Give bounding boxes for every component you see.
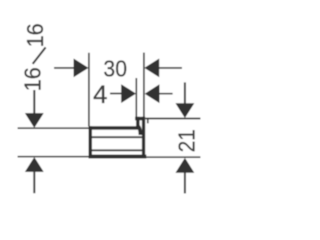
dim line 16/16 top — [18, 127, 89, 129]
arrow 21 down — [176, 103, 195, 118]
label 16/16 fraction slash — [33, 47, 46, 64]
arrow 30 right — [144, 59, 159, 78]
profile hook lip — [136, 117, 140, 129]
profile back wall — [142, 117, 145, 159]
extension line left of 30 dim — [88, 53, 90, 127]
profile inner line upper — [92, 136, 142, 138]
profile top flange — [89, 126, 140, 130]
extension line hook front (4 dim left) — [135, 78, 137, 118]
svg-text:21: 21 — [173, 129, 200, 152]
arrow 21 up — [176, 158, 195, 173]
profile left wall — [89, 126, 93, 158]
tail 21 top arrow — [184, 82, 186, 103]
arrow 30 left — [74, 59, 89, 78]
tail 30 left — [54, 67, 74, 69]
arrow 16/16 down — [25, 113, 44, 128]
dim line 16/16 bottom — [18, 156, 89, 158]
arrow 4 left — [121, 84, 136, 103]
arrow 4 right — [145, 84, 160, 103]
profile inner line lower — [92, 149, 142, 151]
svg-text:4: 4 — [93, 81, 107, 108]
svg-text:30: 30 — [103, 55, 127, 81]
tail 16/16 bottom arrow — [33, 172, 35, 194]
svg-text:16: 16 — [22, 23, 48, 47]
tail 30 right — [159, 67, 182, 69]
dim line 21 bottom — [146, 156, 200, 158]
wall stub vertical — [147, 119, 149, 124]
svg-text:16: 16 — [19, 67, 45, 91]
profile hook lip curl — [138, 126, 141, 135]
profile bottom wall — [89, 155, 147, 159]
leader 16/16 text to arrow — [33, 90, 35, 114]
tail 4 left — [110, 93, 122, 95]
dim line 21 top — [145, 118, 200, 120]
profile hook top — [135, 117, 145, 121]
extension line wall (30/4 dim right) — [143, 53, 145, 117]
tail 4 right — [159, 93, 172, 95]
tail 21 bottom arrow — [184, 172, 186, 193]
arrow 16/16 up — [25, 157, 44, 172]
